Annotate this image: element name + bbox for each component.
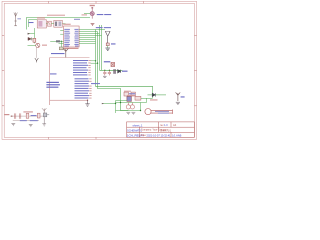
red net horizontal bottom xyxy=(50,99,88,101)
optocoupler U3 xyxy=(127,96,131,101)
junction bus row2 xyxy=(97,63,98,64)
wire U1 left pin 3 xyxy=(50,40,63,42)
crystal circuit label xyxy=(104,61,111,62)
frame inner border xyxy=(4,3,194,137)
label VIN xyxy=(181,96,185,97)
ground relay 2 xyxy=(132,112,136,114)
red net horizontal top xyxy=(50,57,90,59)
label module pin xyxy=(29,22,34,23)
frame tick left xyxy=(2,34,4,36)
red net end junction xyxy=(87,100,88,101)
label U1 name xyxy=(63,24,70,25)
RF module U2 xyxy=(37,17,46,28)
label net VDD row xyxy=(50,73,57,74)
frame tick left 3 xyxy=(2,105,4,107)
junction rail 1 xyxy=(104,70,105,71)
frame tick top 1 xyxy=(48,1,50,3)
label module value xyxy=(47,15,65,16)
label L1 xyxy=(111,43,116,44)
frame tick right 3 xyxy=(194,105,196,107)
diode D3 xyxy=(118,70,121,73)
ground mic 1 xyxy=(11,124,15,126)
label row2 a xyxy=(20,120,27,121)
crystal Y2 xyxy=(59,47,63,50)
wire net module inner xyxy=(29,20,38,28)
wire mic row 2 xyxy=(13,120,39,122)
label value row xyxy=(23,111,33,112)
wire U1 right stubs to bus xyxy=(79,30,105,44)
IC U1 pin names xyxy=(64,29,78,47)
title block texts xyxy=(127,123,182,137)
svg-text:Sheet: 1/1: Sheet: 1/1 xyxy=(160,130,172,133)
label row2 b xyxy=(30,120,38,121)
label SERIAL net xyxy=(97,14,104,15)
ground mic 3 xyxy=(42,117,46,126)
label bus names xyxy=(96,27,103,28)
svg-text:2021-10-07 10:32:41: 2021-10-07 10:32:41 xyxy=(147,133,172,137)
wire reg out xyxy=(141,97,153,99)
ground near TP1 xyxy=(91,23,95,25)
label TP2 xyxy=(4,114,9,115)
frame outer border xyxy=(2,1,197,139)
transistor Q1 xyxy=(28,43,40,47)
bus vertical 1 xyxy=(96,30,153,99)
varistor RV1 xyxy=(113,69,116,74)
wire cap to connector xyxy=(51,23,53,25)
svg-text:A4: A4 xyxy=(173,123,177,127)
ground mic 2 xyxy=(29,125,33,127)
relay coil K1 xyxy=(126,103,134,110)
microphone MK1 xyxy=(43,113,49,117)
wire crystal rail xyxy=(100,69,123,71)
capacitor C13 xyxy=(19,113,20,118)
svg-text:rev 1.0: rev 1.0 xyxy=(160,124,168,127)
ground at red net end xyxy=(85,100,89,106)
junction bus row1 xyxy=(95,60,96,61)
resistor R8 xyxy=(26,113,29,118)
title block outline xyxy=(127,122,195,137)
label on antenna feed xyxy=(74,19,80,20)
frame tick bottom 1 xyxy=(48,137,50,139)
connector jack J3 xyxy=(145,109,173,115)
wire net antenna feed xyxy=(27,18,91,30)
wire U1 left pin 2 xyxy=(60,33,63,35)
junction grid 1 xyxy=(120,102,121,103)
connector J2 xyxy=(54,20,63,27)
frame tick left 2 xyxy=(2,70,4,72)
frame tick bottom 2 xyxy=(95,137,97,139)
junction grid 3 xyxy=(115,103,116,104)
label config block xyxy=(46,82,60,88)
label U3 xyxy=(127,95,135,96)
svg-text:1/1 AAB: 1/1 AAB xyxy=(172,133,182,137)
wire grid h2 xyxy=(103,103,116,105)
junction grid 2 xyxy=(140,110,141,111)
wire grid h4 xyxy=(116,110,141,112)
bus vertical 4 xyxy=(101,25,103,70)
bus vertical 2 xyxy=(98,32,129,111)
label reg value xyxy=(129,93,136,94)
net stub arrow h2 xyxy=(102,103,104,104)
label ANT xyxy=(17,18,21,19)
junction rail 2 xyxy=(109,70,110,71)
net label list xyxy=(73,60,100,99)
resistor R11 xyxy=(124,92,128,96)
supply arrow VCC mic xyxy=(42,108,46,113)
diode D1 xyxy=(28,37,35,40)
wire grid h3 xyxy=(116,102,147,104)
regulator U4 xyxy=(135,96,141,100)
antenna ANT1 xyxy=(14,12,17,25)
ground relay 1 xyxy=(126,112,130,114)
bus vertical 3 xyxy=(99,25,101,70)
label jack value xyxy=(155,111,169,114)
wire bus to label row 1 xyxy=(91,60,96,62)
frame tick right 2 xyxy=(194,70,196,72)
antenna ANT2 xyxy=(105,31,110,43)
label Q1 xyxy=(42,45,47,46)
resistor R12 xyxy=(131,92,135,96)
wire grid v2 xyxy=(140,103,142,111)
ground VIN xyxy=(176,102,180,104)
frame tick top 2 xyxy=(95,1,97,3)
wire L1 to ground xyxy=(107,46,109,48)
resistor R2 xyxy=(33,38,36,42)
red net vertical xyxy=(49,58,51,106)
frame tick right xyxy=(194,34,196,36)
frame tick top 3 xyxy=(143,1,145,3)
wire net RF out xyxy=(84,13,90,15)
wire module down rail xyxy=(34,28,36,43)
label bus names 2 xyxy=(104,27,111,28)
label U1 value xyxy=(64,48,79,49)
wire grid v1 xyxy=(115,101,117,114)
diode D4 xyxy=(148,93,167,96)
svg-text:sheet_1: sheet_1 xyxy=(133,124,143,128)
capacitor C8 xyxy=(103,70,106,75)
inductor L1 xyxy=(106,43,109,46)
label jack name xyxy=(150,99,158,100)
wire grid h1 xyxy=(116,100,127,102)
capacitor C9 xyxy=(108,70,111,75)
wire U1 left pin 1 xyxy=(60,30,63,32)
label D3 xyxy=(122,71,128,72)
wire down from pin3 xyxy=(60,41,62,47)
supply arrow VIN xyxy=(176,92,181,101)
wire Q1 emitter xyxy=(36,47,38,57)
wire U1 left pin 4 xyxy=(59,43,64,45)
wire grid v3 xyxy=(146,98,148,102)
capacitor C12 xyxy=(14,113,15,118)
label net RF out red xyxy=(82,14,88,15)
junction left of U1 xyxy=(61,41,62,42)
test point TP1 xyxy=(90,5,95,19)
supply arrow VDD xyxy=(63,49,68,58)
junction mic row xyxy=(11,115,12,116)
ground crystal rail xyxy=(103,76,107,77)
label regulator row xyxy=(124,91,131,92)
net stub arrow 1 xyxy=(28,33,35,35)
ferrite FB1 xyxy=(56,40,60,42)
IC U1 MCU body xyxy=(64,26,80,47)
ground arrow under Q1 xyxy=(35,58,39,62)
wire mic row xyxy=(10,115,47,117)
crystal Y1 xyxy=(111,62,115,66)
wire module to cap xyxy=(46,23,47,25)
wire J2 right stub xyxy=(62,23,65,25)
ground under ANT2 xyxy=(105,48,110,50)
capacitor C1 xyxy=(47,21,51,26)
label VDD net xyxy=(51,53,65,54)
wire bus to label row 2 xyxy=(91,62,98,64)
resistor R9 xyxy=(37,113,40,118)
label mic net xyxy=(31,115,37,116)
